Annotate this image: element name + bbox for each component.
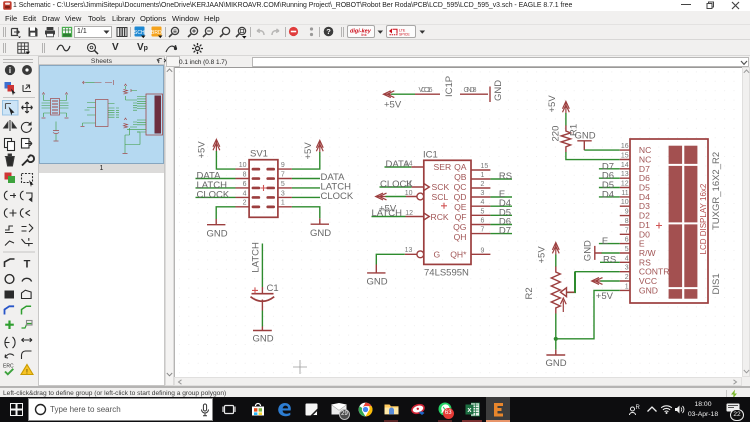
svg-text:6: 6	[625, 237, 629, 244]
excel	[465, 402, 480, 417]
svg-text:GND: GND	[310, 228, 331, 239]
wire/label D4 to pin 11	[599, 196, 620, 198]
+5V supply to SCL pin 10	[376, 193, 387, 200]
svg-text:13: 13	[621, 171, 629, 178]
svg-text:QA: QA	[454, 162, 467, 172]
+5V supply symbol (IC1P VCC)	[383, 91, 394, 98]
wire/label LATCH (right)	[292, 187, 320, 189]
svg-text:7: 7	[281, 171, 285, 178]
svg-text:9: 9	[625, 209, 629, 216]
svg-text:QD: QD	[454, 192, 467, 202]
capacitor C1 (polarized)	[261, 287, 263, 293]
wire/label CLOCK to SCK	[380, 186, 412, 188]
wire/label RS from QB	[490, 178, 512, 180]
window title bar	[0, 0, 750, 11]
wire/label DATA (right)	[292, 178, 320, 180]
svg-text:GND: GND	[639, 285, 658, 295]
svg-text:7: 7	[481, 227, 485, 234]
r4: mirror / rotate	[4, 120, 16, 131]
taskbar	[0, 397, 750, 422]
wire VCC	[391, 93, 415, 95]
svg-text:4: 4	[481, 199, 485, 206]
toolbar row 1	[0, 24, 750, 40]
edge	[277, 402, 292, 417]
+5V supply left of SV1	[213, 139, 220, 151]
svg-text:11: 11	[621, 190, 628, 197]
wire/label D7 from QH	[490, 233, 512, 235]
svg-text:T: T	[24, 259, 31, 271]
mail	[331, 403, 347, 415]
wire/label CLOCK (left)	[196, 196, 236, 198]
svg-text:GND: GND	[546, 358, 567, 369]
svg-text:8: 8	[243, 171, 247, 178]
svg-text:G: G	[434, 249, 441, 259]
r14: rect / polygon	[5, 291, 15, 299]
pin GND8 of IC1P	[460, 93, 488, 95]
svg-text:2: 2	[481, 181, 485, 188]
svg-text:SPICE: SPICE	[399, 33, 410, 36]
r13: circle / arc	[5, 275, 14, 284]
IC1 clock marks	[424, 184, 430, 221]
svg-text:CLOCK: CLOCK	[197, 189, 230, 200]
mini R1 + LCD + R2	[125, 86, 140, 153]
ground symbol below C1	[253, 327, 272, 331]
svg-text:QF: QF	[455, 212, 467, 222]
+5V supply above R1	[563, 101, 570, 113]
wire pin13 G to GND	[376, 254, 405, 264]
DIS1 body	[630, 139, 708, 303]
svg-text:QH: QH	[454, 232, 467, 242]
ground symbol right of SV1	[311, 218, 329, 224]
r8: cut / paste2	[4, 191, 16, 200]
svg-text:220: 220	[551, 126, 562, 142]
ground symbol below R2	[546, 350, 565, 355]
svg-text:IC1P: IC1P	[444, 76, 455, 97]
resistor R1 220	[561, 125, 570, 152]
wire/label D6 from QG	[490, 224, 512, 226]
svg-text:link: link	[361, 33, 367, 36]
wire/label DATA to SER	[385, 166, 412, 168]
svg-text:10: 10	[621, 199, 629, 206]
junction	[554, 337, 558, 341]
IC1 right pin numbers	[481, 163, 489, 254]
svg-text:GND: GND	[207, 229, 228, 240]
svg-text:LCD DISPLAY 16x2: LCD DISPLAY 16x2	[699, 183, 708, 254]
r1: info / eye	[5, 65, 14, 74]
mini power gate	[86, 82, 95, 84]
separator	[3, 251, 35, 253]
main area	[0, 56, 750, 386]
svg-text:RS: RS	[499, 171, 512, 182]
mini C1	[55, 122, 57, 141]
svg-text:QE: QE	[454, 202, 467, 212]
svg-text:DATA: DATA	[386, 159, 411, 170]
r18: smash / miter	[5, 354, 14, 358]
svg-text:15: 15	[481, 163, 489, 170]
wire +5V to pin 9	[292, 152, 320, 169]
svg-text:7: 7	[625, 227, 629, 234]
svg-text:?: ?	[326, 27, 331, 36]
chrome	[358, 402, 373, 417]
wire/label D7 to pin 14	[599, 168, 620, 170]
svg-text:13: 13	[405, 247, 413, 254]
wire R1 to LCD pin 15	[566, 152, 620, 160]
mini SV1	[42, 95, 69, 118]
svg-text:RCK: RCK	[431, 212, 449, 222]
svg-text:8: 8	[625, 218, 629, 225]
potentiometer R2	[551, 267, 560, 314]
svg-text:!: !	[26, 368, 28, 375]
ground symbol (IC1P GND)	[489, 87, 491, 103]
wire/label E from QD	[490, 196, 512, 198]
wire/label D5 to pin 12	[599, 187, 620, 189]
r17: attribute / dimension	[5, 337, 15, 348]
wire +5V to pin 10	[216, 151, 235, 169]
svg-text:E: E	[602, 236, 608, 247]
wire/label D6 to pin 13	[599, 177, 620, 179]
explorer folder	[384, 403, 399, 416]
svg-text:5: 5	[281, 181, 285, 188]
svg-text:SV1: SV1	[250, 149, 268, 160]
ground symbol left of SV1	[207, 219, 225, 225]
+5V supply right of SV1	[316, 140, 323, 152]
svg-text:SCH: SCH	[134, 30, 145, 36]
svg-text:15: 15	[621, 153, 629, 160]
svg-text:TUXGR_16X2_R2: TUXGR_16X2_R2	[711, 152, 722, 230]
svg-text:BRD: BRD	[151, 30, 162, 36]
DIS1 pin names	[639, 145, 670, 295]
wire pin 3 CONTR to R2 wiper	[567, 272, 620, 293]
origin cross	[293, 360, 307, 374]
mini IC1	[81, 100, 109, 127]
svg-text:LATCH: LATCH	[251, 242, 262, 273]
SV1 pin numbers	[239, 162, 247, 207]
wire/label CLOCK (right)	[292, 196, 320, 198]
red ellipse app	[411, 403, 426, 417]
svg-text:6: 6	[481, 218, 485, 225]
svg-text:10: 10	[405, 190, 413, 197]
r9: add part / pinswap	[4, 209, 16, 218]
IC1 pin names	[431, 162, 452, 259]
IC1 body	[424, 160, 471, 264]
wire/label D5 from QF	[490, 214, 512, 216]
svg-text:5: 5	[625, 246, 629, 253]
menu bar	[0, 11, 750, 24]
svg-text:QB: QB	[454, 172, 467, 182]
svg-text:12: 12	[405, 210, 413, 217]
svg-text:RS: RS	[603, 255, 616, 266]
svg-text:74LS595N: 74LS595N	[424, 268, 469, 279]
DIS1 pin stubs	[620, 150, 630, 290]
svg-text:GND8: GND8	[464, 87, 477, 94]
r15: bus / net	[5, 306, 15, 314]
r6: delete / wrench	[5, 154, 15, 166]
svg-text:+5V: +5V	[303, 142, 314, 160]
wire/label DATA (left)	[196, 178, 236, 180]
svg-text:3: 3	[625, 265, 629, 272]
whatsapp	[438, 402, 452, 416]
R2 wiper triangle	[561, 288, 575, 297]
svg-text:C1: C1	[267, 283, 279, 294]
svg-text:9: 9	[481, 247, 485, 254]
wire C1 to GND	[261, 311, 263, 327]
svg-text:1: 1	[625, 283, 629, 290]
svg-text:+5V: +5V	[547, 95, 558, 113]
svg-text:LATCH: LATCH	[372, 208, 403, 219]
grid dots	[175, 68, 742, 377]
notepad tile	[305, 403, 318, 416]
svg-text:CLOCK: CLOCK	[380, 179, 413, 190]
r7: change / group	[5, 173, 16, 184]
wire/label LATCH to RCK	[372, 216, 406, 218]
+5V supply to pin 2 VCC	[592, 278, 603, 285]
svg-text:4: 4	[243, 190, 247, 197]
wire/label RS to pin 4	[600, 261, 620, 263]
+5V supply above R2	[552, 243, 559, 255]
svg-text:3: 3	[281, 190, 285, 197]
R2 adjust arrow	[560, 298, 566, 312]
svg-text:12: 12	[621, 181, 629, 188]
svg-text:GND: GND	[583, 240, 594, 261]
svg-text:GND: GND	[493, 80, 504, 101]
svg-text:2: 2	[625, 274, 629, 281]
wire/label E to pin 6	[599, 243, 620, 245]
wire/label LATCH (vertical)	[261, 244, 263, 288]
wire GND to LCD pin 16	[584, 149, 620, 151]
DIS1 pin numbers	[621, 143, 629, 290]
toolbar row 2	[0, 40, 750, 56]
r16: junction / label	[5, 321, 14, 330]
wire pin 1 GND down to junction	[556, 290, 620, 338]
svg-text:2: 2	[243, 200, 247, 207]
svg-text:D4: D4	[602, 189, 614, 200]
svg-text:GND: GND	[575, 131, 596, 142]
connector SV1 body	[249, 160, 278, 218]
wire R2 top of wiper riser	[574, 272, 576, 293]
eagle button	[486, 397, 510, 422]
SV1 contact pads	[252, 168, 275, 208]
svg-text:QH*: QH*	[450, 249, 467, 259]
DIS1 origin cross	[656, 223, 662, 229]
svg-text:CLOCK: CLOCK	[321, 191, 354, 202]
r10: pinswap / gateswap	[5, 226, 14, 233]
svg-text:+5V: +5V	[197, 141, 208, 159]
svg-text:GND: GND	[253, 334, 274, 345]
ground symbol right of R1	[577, 141, 591, 150]
svg-text:IC1: IC1	[423, 150, 438, 161]
svg-text:SCK: SCK	[432, 182, 450, 192]
svg-text:10: 10	[239, 162, 247, 169]
command row	[174, 56, 750, 67]
SV1 origin cross	[261, 185, 267, 191]
ground symbol at pin 5 R/W	[595, 246, 602, 260]
svg-text:4: 4	[625, 255, 629, 262]
SV1 pin stubs	[236, 169, 292, 207]
wire to R2	[555, 255, 557, 268]
svg-text:R: R	[636, 405, 641, 411]
schematic canvas SVG	[174, 67, 742, 377]
svg-text:5: 5	[481, 208, 485, 215]
svg-text:DIS1: DIS1	[711, 273, 722, 294]
svg-text:16: 16	[621, 143, 629, 150]
svg-text:+5V: +5V	[596, 291, 614, 302]
r5: copy / paste	[5, 139, 12, 148]
wire pin1 to GND (right)	[292, 207, 320, 219]
r12: wire / text	[5, 259, 15, 267]
wire R2 bottom to junction/GND	[555, 314, 557, 350]
svg-text:SER: SER	[434, 162, 452, 172]
svg-text:GND: GND	[367, 277, 388, 288]
r3: select (active) / move	[3, 101, 19, 116]
IC1 origin cross	[441, 203, 447, 209]
svg-text:9: 9	[281, 162, 285, 169]
pin VCC16 of IC1P	[415, 93, 440, 95]
r11: invoke / array	[5, 241, 14, 246]
wire to R1	[565, 113, 567, 126]
r2: display/layers	[5, 82, 16, 96]
svg-text:14: 14	[621, 162, 629, 169]
svg-text:SCL: SCL	[432, 192, 449, 202]
svg-text:i: i	[9, 66, 11, 75]
svg-text:R2: R2	[524, 287, 535, 299]
svg-text:+5V: +5V	[384, 100, 402, 111]
tray	[628, 403, 641, 416]
status bar	[0, 386, 750, 397]
ground symbol at pin 13	[367, 265, 385, 273]
separator	[3, 97, 35, 99]
inversion circle pin 13	[417, 251, 424, 258]
LCD dark bars	[669, 146, 698, 299]
wire/label D4 from QE	[490, 205, 512, 207]
svg-text:3: 3	[481, 190, 485, 197]
svg-text:QG: QG	[453, 222, 467, 232]
IC1 left pin stubs	[405, 167, 424, 254]
svg-text:6: 6	[243, 181, 247, 188]
svg-text:VCC16: VCC16	[419, 87, 433, 94]
store	[251, 402, 265, 417]
svg-text:1: 1	[281, 200, 285, 207]
wire/label LATCH (left)	[196, 187, 236, 189]
IC1 right pin stubs	[471, 170, 490, 254]
IC1 left pin numbers	[405, 160, 413, 254]
svg-text:QC: QC	[454, 182, 467, 192]
wire pin2 to GND (left)	[216, 207, 235, 219]
svg-text:+5V: +5V	[537, 246, 548, 264]
svg-text:1: 1	[481, 172, 485, 179]
svg-text:D7: D7	[499, 226, 511, 237]
inversion circle pin 10	[417, 193, 424, 200]
task view	[222, 403, 236, 416]
